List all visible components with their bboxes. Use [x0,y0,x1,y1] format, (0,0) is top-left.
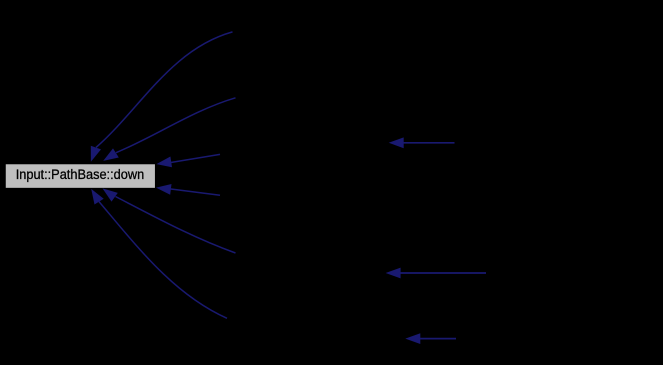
edge caller 3 (short line into top-right corner) [156,154,220,167]
edge hidden nodes row 1 (horizontal arrow) [389,137,455,148]
arrowhead 6 [91,189,104,205]
node Input::PathBase::down (current node box) [5,164,156,189]
edge caller 2 (upper-middle curve) [103,98,235,161]
arrowhead 9 [405,333,420,344]
arrowhead 5 [103,188,118,201]
arrowhead 3 [156,157,172,168]
arrowhead 2 [103,148,119,161]
arrowhead 1 [91,146,101,162]
svg-text:Input::PathBase::down: Input::PathBase::down [16,166,145,182]
edge hidden nodes row 3 (horizontal arrow) [405,333,456,344]
edge caller 4 (short line into bottom-right corner) [156,184,220,195]
edge caller 5 (lower-middle curve) [103,188,236,253]
edge caller 1 (top long curve) [91,32,233,162]
edge caller 6 (bottom long curve) [91,189,227,318]
arrowhead 7 [389,137,404,148]
arrowhead 8 [386,268,401,279]
edge hidden nodes row 2 (horizontal arrow) [386,268,486,279]
arrowhead 4 [156,184,172,195]
